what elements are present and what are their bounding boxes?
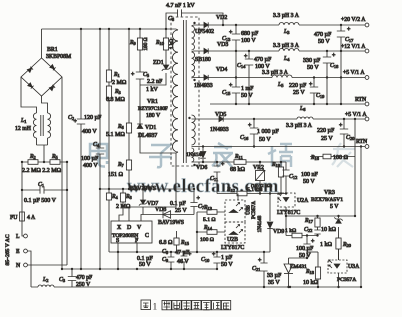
wire H15 line	[286, 235, 318, 237]
watermark big char 3	[212, 143, 233, 167]
wire R19 vertical	[280, 162, 282, 194]
svg-text:R3: R3	[114, 89, 122, 95]
wire H9 line	[192, 161, 287, 163]
svg-text:1 µF: 1 µF	[221, 255, 233, 261]
svg-text:C15: C15	[222, 90, 231, 96]
svg-text:C5: C5	[143, 72, 150, 78]
wire bridge left to choke	[21, 77, 37, 113]
svg-text:5 V: 5 V	[330, 204, 339, 210]
wire S pin down	[117, 243, 119, 269]
svg-text:R20: R20	[342, 242, 352, 248]
svg-text:R10: R10	[155, 40, 165, 46]
svg-text:U2A: U2A	[297, 198, 309, 204]
wire C6 branch	[166, 13, 223, 29]
svg-text:1 kV: 1 kV	[146, 87, 159, 93]
svg-text:R15: R15	[180, 240, 190, 246]
wire secondary tap3 to VD4	[192, 77, 205, 80]
svg-text:100 V: 100 V	[241, 38, 256, 44]
wire C16 vertical	[253, 119, 255, 147]
capacitor C5 plates	[131, 72, 144, 79]
svg-text:PC357A: PC357A	[337, 277, 356, 283]
diode VD4 1N4933	[204, 75, 208, 80]
terminal RTN2	[365, 145, 369, 149]
resistor R5	[50, 160, 60, 165]
svg-text:C2: C2	[68, 115, 74, 121]
svg-text:C9: C9	[162, 257, 169, 263]
svg-text:3.3 µH 3 A: 3.3 µH 3 A	[273, 13, 300, 19]
wire C14 vertical	[248, 51, 250, 104]
optocoupler U3A PC357A	[328, 260, 347, 273]
terminal E	[24, 249, 28, 253]
svg-text:100 µF: 100 µF	[296, 246, 314, 252]
wire N to right rail	[27, 162, 67, 265]
junction dots output rails	[222, 24, 342, 105]
svg-text:50 V: 50 V	[303, 179, 315, 185]
svg-text:1N4933: 1N4933	[194, 83, 213, 89]
svg-text:E: E	[16, 249, 20, 255]
wire U2A down	[285, 207, 287, 236]
svg-text:250 V: 250 V	[76, 282, 91, 288]
svg-text:C13: C13	[222, 36, 231, 42]
wire x355 vertical	[354, 119, 356, 216]
wire C9 vertical	[170, 252, 172, 269]
junction dots H14	[285, 215, 340, 217]
caption figure title	[141, 300, 151, 310]
svg-text:+: +	[311, 239, 315, 245]
resistor R20 1k	[336, 238, 341, 249]
svg-text:1 kΩ: 1 kΩ	[285, 228, 296, 234]
svg-text:50 V: 50 V	[221, 262, 233, 268]
inductor L2 coil	[38, 285, 54, 287]
svg-text:SB180: SB180	[195, 57, 211, 63]
resistor R15 6.8ohm	[174, 238, 179, 245]
wire secondary tap VD5	[192, 118, 220, 120]
wire R18 vertical	[317, 252, 319, 287]
wire R13 row	[197, 211, 225, 213]
wire F pin down	[136, 243, 138, 252]
svg-text:151 Ω: 151 Ω	[108, 172, 124, 178]
capacitor C14 plates	[244, 54, 253, 65]
resistor R6	[126, 123, 131, 133]
zener VR3 diode	[334, 217, 342, 223]
svg-text:D: D	[127, 225, 131, 231]
wire RTN2 line	[192, 146, 366, 148]
svg-text:VD5: VD5	[215, 112, 226, 118]
svg-text:+5 V/1 A: +5 V/1 A	[345, 112, 367, 118]
wire bottom rail left	[31, 286, 361, 288]
terminal +12V	[365, 49, 369, 53]
resistor R21 1k	[292, 233, 302, 238]
wire C11 vertical	[216, 162, 218, 194]
resistor R11 68k	[234, 160, 246, 165]
terminal N	[24, 263, 28, 267]
wire VR3 vertical	[338, 216, 340, 260]
wire +12V line	[209, 50, 366, 52]
svg-text:85~265 V AC: 85~265 V AC	[5, 234, 11, 265]
svg-text:180 Ω: 180 Ω	[143, 37, 149, 50]
svg-text:U3A: U3A	[348, 264, 360, 270]
wire C7 vertical	[193, 189, 195, 215]
wire top HV bus	[42, 28, 177, 30]
svg-text:C22: C22	[304, 227, 312, 233]
wire R18 top tie	[307, 251, 318, 253]
wire opto left rail	[196, 212, 198, 252]
transformer primary coil	[172, 30, 178, 152]
svg-text:1N4148: 1N4148	[257, 215, 263, 232]
svg-text:BZY97C180F: BZY97C180F	[138, 106, 168, 112]
svg-text:VR3: VR3	[324, 190, 335, 196]
wire C12 vertical	[285, 162, 287, 194]
junction dots H15	[306, 234, 319, 236]
wire C19 vertical	[313, 78, 315, 105]
terminal RTN1	[365, 102, 369, 106]
diode VD1 DL4937	[137, 124, 143, 128]
svg-text:470 pF: 470 pF	[76, 275, 93, 281]
svg-text:0.1 µF 500 V: 0.1 µF 500 V	[24, 198, 57, 204]
svg-text:+12 V/1 A: +12 V/1 A	[341, 44, 366, 50]
svg-text:4.7 nF 1 kV: 4.7 nF 1 kV	[166, 3, 195, 9]
svg-text:400 V: 400 V	[82, 129, 97, 135]
zener ZD1	[162, 65, 170, 71]
wire U3B collector up	[237, 194, 239, 201]
svg-text:5.1 kΩ: 5.1 kΩ	[247, 187, 262, 193]
svg-text:+5 V/1 A: +5 V/1 A	[343, 70, 365, 76]
svg-text:ZD1: ZD1	[153, 60, 164, 66]
svg-text:R2: R2	[29, 154, 36, 160]
wire R15 vertical	[176, 231, 178, 252]
svg-text:R11: R11	[234, 154, 243, 160]
wire C8 vertical	[183, 252, 185, 269]
wire C13 C15 vertical	[235, 25, 237, 104]
capacitor C7 plates	[190, 196, 200, 207]
wire bridge top stem	[41, 29, 43, 58]
svg-text:50 V: 50 V	[241, 93, 253, 99]
capacitor C17 plates	[337, 27, 351, 37]
transformer T1 shield dashed box	[171, 17, 199, 166]
wire left rail L to fuse	[21, 162, 23, 212]
svg-text:+: +	[347, 27, 351, 33]
svg-text:400 V: 400 V	[83, 163, 98, 169]
diode VD2 UF5402	[204, 22, 208, 27]
svg-text:3.3 µH 3 A: 3.3 µH 3 A	[286, 123, 313, 129]
diode VD9 1N4148	[267, 222, 273, 229]
svg-text:3.3 µH 3 A: 3.3 µH 3 A	[273, 43, 300, 49]
wire C10 vertical	[216, 252, 218, 269]
resistor R9 180ohm	[137, 38, 142, 50]
diode VD8 BAV19WS	[163, 211, 171, 218]
resistor R18 10k	[315, 267, 320, 279]
resistor R3	[106, 86, 111, 98]
svg-text:50 V: 50 V	[139, 262, 151, 268]
svg-text:R5: R5	[51, 154, 59, 160]
svg-text:C17: C17	[345, 37, 354, 43]
svg-text:+: +	[131, 72, 135, 78]
svg-text:220 µF: 220 µF	[289, 83, 307, 89]
capacitor C13 plates	[229, 30, 240, 40]
svg-text:1: 1	[153, 303, 158, 313]
capacitor C18 plates	[323, 53, 336, 63]
choke L1 right winding	[48, 113, 51, 138]
watermark big char 4	[268, 144, 293, 167]
junction dots H12	[99, 188, 130, 190]
svg-text:L6: L6	[299, 106, 306, 112]
capacitor C22 plates	[314, 230, 320, 234]
wire fuse to L terminal	[22, 221, 26, 236]
wire rail x100 with C4	[99, 29, 101, 269]
wire R4 stub	[108, 189, 110, 252]
svg-text:+: +	[229, 30, 233, 36]
wire R16 row	[310, 156, 355, 158]
svg-text:100 Ω: 100 Ω	[200, 237, 214, 243]
svg-text:50 V: 50 V	[318, 39, 330, 45]
watermark big char 5	[332, 143, 355, 167]
svg-text:100 nF: 100 nF	[301, 172, 319, 178]
svg-text:100 V: 100 V	[255, 64, 270, 70]
svg-text:U2B: U2B	[227, 237, 238, 243]
svg-text:+: +	[229, 83, 233, 89]
svg-text:220 µF: 220 µF	[317, 128, 335, 134]
svg-text:L: L	[16, 234, 20, 240]
svg-text:C1: C1	[38, 182, 44, 188]
terminal +20V	[365, 23, 369, 27]
resistor R16	[323, 154, 331, 159]
svg-text:C11: C11	[210, 176, 218, 182]
junction dots top bus	[61, 28, 167, 270]
transformer bias coil	[192, 148, 194, 162]
junction dots C1 row	[21, 161, 68, 191]
zener VD7	[139, 200, 147, 206]
svg-text:C4: C4	[93, 142, 100, 148]
inductor L3	[279, 23, 299, 26]
wire U3A stubs	[338, 249, 340, 287]
capacitor C16 plates	[248, 123, 258, 134]
svg-text:R16: R16	[310, 155, 320, 161]
wire secondary tap2 to VD3	[192, 51, 205, 52]
wire rail x129 R6 R7	[128, 29, 130, 189]
svg-text:L5: L5	[277, 82, 284, 88]
choke L1 core	[41, 115, 43, 136]
svg-text:33 µF: 33 µF	[267, 273, 282, 279]
junction dots H13	[259, 192, 287, 194]
svg-text:VD1: VD1	[145, 125, 156, 131]
svg-text:L2: L2	[42, 277, 48, 283]
wire C20 vertical	[343, 119, 345, 147]
svg-text:R9: R9	[129, 40, 137, 46]
svg-text:LTY817C: LTY817C	[277, 210, 300, 216]
wire H16 mid rail	[109, 251, 270, 253]
svg-text:+: +	[221, 162, 225, 168]
svg-text:6.8 Ω: 6.8 Ω	[159, 240, 173, 246]
svg-text:2.2 nF: 2.2 nF	[147, 79, 163, 85]
svg-text:25 V: 25 V	[321, 136, 333, 142]
svg-text:12 mH: 12 mH	[15, 126, 32, 132]
svg-text:L1: L1	[20, 118, 26, 124]
diode VD5 1N4933	[219, 116, 223, 121]
wire zener rail x166	[140, 29, 166, 85]
wire C21 vertical	[263, 252, 265, 287]
capacitor C1	[40, 186, 44, 193]
capacitor C9 plates	[168, 257, 175, 262]
svg-text:680 µF: 680 µF	[241, 31, 259, 37]
svg-text:25 V: 25 V	[175, 208, 187, 214]
wire RTN1 line	[210, 103, 366, 105]
svg-text:5.1 Ω: 5.1 Ω	[203, 217, 216, 223]
wire x361 vertical	[360, 147, 362, 288]
wire C2 vertical	[80, 29, 82, 269]
svg-text:RTN: RTN	[355, 97, 367, 103]
svg-text:+: +	[332, 53, 336, 59]
svg-text:C18: C18	[330, 63, 339, 69]
capacitor C2 plates	[74, 119, 86, 125]
svg-text:R4: R4	[111, 194, 119, 200]
capacitor C15 plates	[229, 83, 240, 93]
svg-text:2.2 MΩ 2.2 MΩ: 2.2 MΩ 2.2 MΩ	[22, 168, 62, 174]
svg-text:1 000 µF: 1 000 µF	[257, 129, 279, 135]
svg-text:1 kΩ: 1 kΩ	[169, 39, 175, 49]
inductor L4	[279, 49, 299, 52]
svg-text:R12: R12	[226, 187, 235, 193]
svg-text:C: C	[145, 233, 149, 239]
capacitor C21 plates	[258, 258, 268, 271]
svg-text:180 V: 180 V	[146, 113, 161, 119]
svg-text:470 µF: 470 µF	[314, 32, 332, 38]
wire resistor row	[22, 161, 67, 163]
watermark big char 1	[90, 144, 107, 167]
junction dots bias line	[142, 188, 195, 190]
wire E to bottom rail	[27, 251, 31, 287]
capacitor C3 plates	[68, 277, 76, 281]
svg-text:BZX79/A5V1: BZX79/A5V1	[311, 197, 343, 203]
svg-text:10 kΩ: 10 kΩ	[303, 280, 319, 286]
diode VD3 SB180	[204, 48, 208, 53]
wire choke bottoms join	[37, 138, 48, 162]
inductor L5	[272, 75, 292, 78]
svg-text:4 A: 4 A	[27, 215, 36, 221]
svg-text:C16: C16	[240, 135, 249, 141]
svg-text:C14: C14	[237, 63, 246, 69]
svg-text:R1: R1	[113, 72, 120, 78]
svg-text:R13: R13	[203, 205, 213, 211]
inductor L6	[297, 117, 313, 119]
junction dots H16	[117, 251, 265, 253]
svg-text:25 V: 25 V	[293, 90, 305, 96]
svg-text:R19: R19	[271, 162, 281, 168]
common-mode choke L1	[33, 113, 50, 138]
svg-text:C20: C20	[346, 135, 355, 141]
capacitor C11 plates	[214, 162, 225, 172]
svg-text:LTY817C: LTY817C	[221, 245, 244, 251]
resistor R17 10k	[315, 218, 320, 227]
svg-text:R14: R14	[203, 225, 213, 231]
svg-text:1 kΩ: 1 kΩ	[320, 242, 333, 248]
svg-text:BAV19WS: BAV19WS	[158, 220, 184, 226]
junction dots opto left	[196, 231, 198, 253]
svg-text:50 V: 50 V	[307, 65, 319, 71]
capacitor C8 plates	[181, 252, 192, 262]
svg-text:VR2: VR2	[253, 165, 264, 171]
svg-text:100 Ω: 100 Ω	[333, 155, 349, 161]
svg-text:LM431: LM431	[290, 264, 307, 270]
svg-text:C21: C21	[252, 266, 260, 272]
svg-text:1 mF: 1 mF	[241, 86, 254, 92]
svg-text:L3: L3	[283, 29, 290, 35]
resistor R12	[237, 191, 247, 196]
ic U1 TOP260EN	[111, 221, 152, 243]
wire VR2 vertical	[259, 162, 261, 194]
resistor R14	[207, 230, 217, 235]
wire bridge bottom to choke	[42, 96, 48, 113]
wire R14 row	[197, 231, 225, 233]
svg-text:470 µF: 470 µF	[254, 57, 272, 63]
transformer secondary coil 2	[192, 52, 195, 77]
wire C3 vertical	[71, 269, 73, 287]
svg-text:5.1 MΩ: 5.1 MΩ	[106, 132, 125, 138]
transformer primary bottom stub	[176, 152, 178, 153]
wire bridge right to ground rail	[61, 77, 63, 269]
svg-text:VD9: VD9	[273, 229, 284, 235]
wire drain from transformer	[129, 153, 176, 221]
svg-text:R18: R18	[305, 269, 315, 275]
watermark big char 2	[149, 145, 172, 167]
svg-text:100 µF: 100 µF	[81, 156, 99, 162]
shunt regulator LM431	[284, 264, 293, 274]
resistor R8	[120, 193, 125, 202]
wire +5V line	[209, 77, 366, 79]
svg-text:FU: FU	[10, 215, 18, 221]
svg-text:C10: C10	[201, 257, 210, 263]
fuse FU 4A	[20, 212, 25, 221]
svg-text:3KBP08M: 3KBP08M	[46, 54, 71, 60]
wire H13 line	[217, 193, 286, 195]
svg-text:VD3: VD3	[217, 42, 228, 48]
capacitor C10 plates	[212, 252, 221, 263]
svg-text:C3: C3	[59, 277, 66, 283]
wire +5V2 line	[224, 118, 366, 120]
svg-text:VD6: VD6	[196, 165, 207, 171]
svg-text:R8: R8	[125, 194, 133, 200]
terminal +5V	[365, 76, 369, 80]
capacitor C20 plates	[339, 123, 348, 134]
wire LM431 stubs	[289, 258, 308, 287]
svg-text:10 kΩ: 10 kΩ	[321, 227, 337, 233]
wire +20V line	[209, 24, 366, 26]
resistor R2	[28, 160, 38, 165]
transformer phasing dots	[188, 22, 195, 166]
capacitor C23 100uF plates	[303, 239, 315, 250]
resistor R4	[106, 193, 111, 200]
svg-text:6.8 MΩ: 6.8 MΩ	[106, 97, 125, 103]
svg-text:VR1: VR1	[147, 99, 158, 105]
capacitor C6 4.7nF	[178, 9, 182, 16]
terminal L	[24, 234, 28, 238]
choke L1 left winding	[33, 113, 36, 138]
bridge rectifier BR1	[21, 58, 62, 96]
svg-text:RTN: RTN	[356, 139, 368, 145]
wire primary gnd H19	[62, 268, 217, 270]
wire C17 vertical	[340, 25, 342, 104]
resistor R10 1kohm	[163, 38, 168, 50]
svg-text:3.3 µH 3 A: 3.3 µH 3 A	[262, 70, 289, 76]
junction dots bottom rail	[263, 215, 362, 288]
junction dots H9	[202, 145, 282, 163]
wire V-pin line H20	[141, 215, 194, 222]
svg-text:N: N	[16, 263, 21, 269]
wire H12 bias line	[100, 188, 194, 190]
wire C18 vertical	[326, 51, 328, 104]
optocoupler U3B PC357A	[225, 200, 245, 222]
capacitor C4 plates	[96, 148, 104, 154]
wire R17 C22 vertical	[317, 216, 319, 236]
